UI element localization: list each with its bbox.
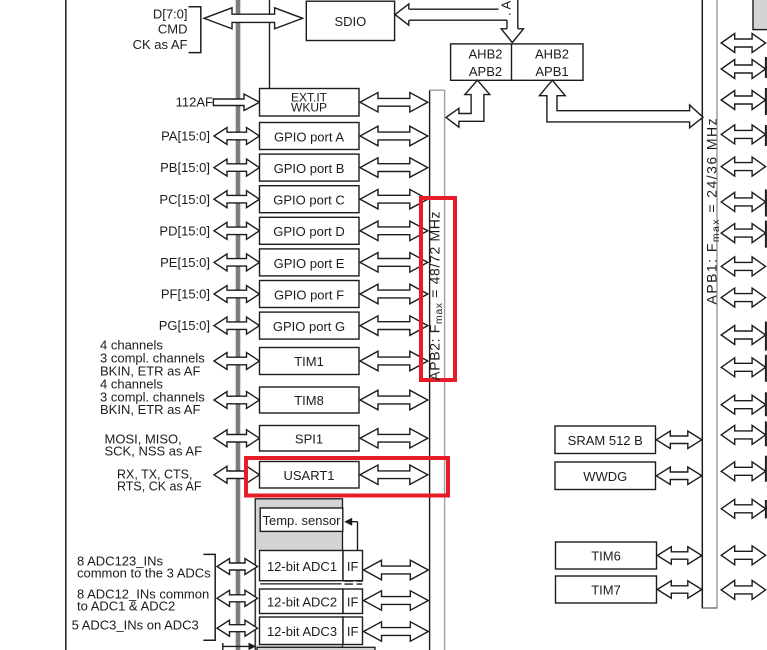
- label PD[15:0]: [159, 223, 210, 238]
- open arrowhead into SDIO: [395, 4, 409, 25]
- svg-text:GPIO port F: GPIO port F: [274, 287, 344, 302]
- system bus (thick gray vertical): [236, 0, 241, 650]
- partial gray box top-right: [753, 0, 767, 30]
- double arrow APB1 to right peripheral (y=266): [721, 257, 765, 276]
- label SPI1 pins: [105, 431, 203, 458]
- double arrow TIM1 to APB2: [360, 351, 428, 371]
- double arrow PG to GPIO port G: [214, 317, 260, 334]
- svg-text:AHB2: AHB2: [535, 47, 569, 62]
- cut right peripheral box edge (y=509): [765, 500, 767, 518]
- double arrow APB1 to right peripheral (y=298): [721, 288, 765, 307]
- cut right peripheral box edge (y=134): [765, 125, 767, 146]
- SDIO box: [306, 1, 394, 40]
- double arrow GPIO port E to APB2: [360, 253, 428, 273]
- double arrow label to TIM8: [214, 392, 260, 409]
- double arrow USART1 to APB2: [360, 465, 428, 485]
- svg-text:WWDG: WWDG: [583, 469, 627, 484]
- double arrow GPIO port B to APB2: [360, 158, 428, 178]
- SRAM 512 B box: [555, 426, 656, 454]
- double arrow GPIO port D to APB2: [360, 221, 428, 241]
- wire ADC IF to temp sensor: [351, 522, 358, 551]
- double arrow PE to GPIO port E: [214, 254, 260, 271]
- cut right peripheral box edge (y=69): [765, 57, 767, 78]
- WWDG box: [555, 462, 656, 490]
- double arrow GPIO port F to APB2: [360, 284, 428, 304]
- svg-text:APB2: APB2: [469, 64, 502, 79]
- GPIO port B box: [260, 154, 360, 181]
- double arrow APB1 to right peripheral (y=43): [721, 34, 765, 53]
- double arrow APB1 to right peripheral (y=134): [721, 125, 765, 144]
- 12-bit ADC1 box: [260, 551, 344, 581]
- label PA[15:0]: [161, 129, 210, 144]
- svg-text:CMD: CMD: [158, 22, 188, 37]
- bracket for ADC labels: [203, 554, 215, 640]
- double arrow TIM8 to APB2: [360, 390, 428, 410]
- svg-text:PA[15:0]: PA[15:0]: [161, 129, 210, 144]
- svg-text:PE[15:0]: PE[15:0]: [160, 255, 210, 270]
- cut right peripheral box edge (y=100): [765, 88, 767, 115]
- double arrow SRAM 512 B to APB1: [656, 431, 702, 449]
- GPIO port G box: [260, 312, 360, 339]
- Temp. sensor box: [260, 508, 343, 531]
- label 5 ADC3_INs: [72, 618, 199, 633]
- cut right peripheral box edge (y=233): [765, 221, 767, 248]
- svg-text:GPIO port B: GPIO port B: [274, 161, 345, 176]
- svg-text:112AF: 112AF: [176, 94, 213, 109]
- double arrow APB1 to right peripheral (y=233): [721, 224, 765, 243]
- svg-text:IF: IF: [347, 559, 359, 574]
- label PC[15:0]: [159, 192, 210, 207]
- AHB vertical arrow left side: [506, 20, 508, 29]
- bottom gray strip (DAC area, cut): [257, 647, 375, 650]
- svg-text:APB1: APB1: [535, 64, 568, 79]
- svg-text:IF: IF: [347, 594, 359, 609]
- hollow arrow SDIO to AHB (lower line): [409, 19, 507, 21]
- GPIO port F box: [260, 281, 360, 308]
- svg-text:common to the 3 ADCs: common to the 3 ADCs: [77, 565, 211, 580]
- double arrow D[7:0] to SDIO: [204, 8, 303, 29]
- double arrow PF to GPIO port F: [214, 286, 260, 303]
- vertical bus label fragment: [499, 0, 514, 16]
- label PE[15:0]: [160, 255, 210, 270]
- EXT.IT WKUP box: [260, 89, 360, 117]
- svg-text:USART1: USART1: [283, 468, 334, 483]
- ADC2 IF box: [343, 589, 363, 614]
- ADC3 IF box: [343, 617, 363, 645]
- double arrow APB1 to right peripheral (y=100): [721, 91, 765, 110]
- double arrow WWDG to APB1: [656, 467, 702, 485]
- double arrow APB1 to right peripheral (y=202): [721, 192, 765, 211]
- double arrow TIM6 to APB1: [657, 547, 702, 564]
- cut right peripheral box edge (y=202): [765, 189, 767, 216]
- svg-text:GPIO port E: GPIO port E: [274, 256, 345, 271]
- double arrow GPIO port A to APB2: [360, 126, 428, 146]
- svg-text:IF: IF: [347, 624, 359, 639]
- APB1 bus bar: [702, 0, 717, 609]
- double arrow APB1 to right peripheral (y=590): [721, 580, 765, 599]
- open arrowhead into AHB2/APB2 bridge: [501, 29, 523, 43]
- wire EXT.IT to top: [269, 0, 271, 89]
- svg-text:to ADC1 & ADC2: to ADC1 & ADC2: [77, 598, 175, 613]
- svg-text:TIM6: TIM6: [591, 549, 621, 564]
- double arrow APB1 to right peripheral (y=167): [721, 157, 765, 176]
- cut right peripheral box edge (y=435): [765, 421, 767, 446]
- double arrow ADC1 IF to APB2: [364, 560, 429, 580]
- USART1 box: [260, 462, 360, 489]
- label D[7:0]/CMD/CK as AF: [133, 7, 188, 52]
- label 4 channels (TIM8): [100, 376, 205, 417]
- svg-text:WKUP: WKUP: [291, 100, 327, 114]
- hollow arrow SDIO to AHB (upper line): [409, 8, 499, 10]
- double arrow APB1 to right peripheral (y=509): [721, 499, 765, 518]
- double arrow APB1 to right peripheral (y=405): [721, 395, 765, 414]
- bracket for D[7:0] label: [189, 7, 201, 53]
- double arrow APB1 to right peripheral (y=335): [721, 326, 765, 345]
- bottom arrow to DAC area (cut): [223, 643, 257, 650]
- double arrow label to USART1: [214, 466, 260, 483]
- TIM1 box: [260, 348, 360, 375]
- svg-text:GPIO port A: GPIO port A: [274, 129, 344, 144]
- red highlight APB2 label: [421, 198, 455, 380]
- cut right peripheral box edge (y=405): [765, 392, 767, 416]
- svg-text:CK as AF: CK as AF: [133, 37, 188, 52]
- svg-text:5 ADC3_INs on ADC3: 5 ADC3_INs on ADC3: [72, 618, 199, 633]
- cut right peripheral box edge (y=335): [765, 322, 767, 351]
- svg-text:BKIN, ETR as AF: BKIN, ETR as AF: [100, 402, 200, 417]
- double arrow APB1 to right peripheral (y=69): [721, 60, 765, 79]
- double arrow APB1 to right peripheral (y=367): [721, 358, 765, 377]
- svg-text:TIM7: TIM7: [591, 583, 621, 598]
- double arrow APB1 to right peripheral (y=555): [721, 546, 765, 565]
- double arrow SPI1 to APB2: [360, 429, 428, 449]
- arrow 112AF to EXT.IT: [213, 94, 259, 111]
- double seam line under ADC1: [260, 583, 341, 585]
- double arrow ADC2 IF to APB2: [364, 591, 429, 610]
- dashed link ADC1-IF to ADC2-IF: [345, 581, 363, 584]
- svg-text:SPI1: SPI1: [295, 431, 323, 446]
- svg-text:GPIO port D: GPIO port D: [273, 224, 345, 239]
- label 112AF: [176, 94, 213, 109]
- label USART1 pins: [117, 467, 202, 493]
- 12-bit ADC2 box: [260, 589, 344, 614]
- APB1 bus label: [704, 117, 723, 305]
- GPIO port D box: [260, 217, 360, 244]
- svg-text:PB[15:0]: PB[15:0]: [160, 160, 210, 175]
- label 8 ADC12_INs: [77, 586, 209, 613]
- svg-text:PC[15:0]: PC[15:0]: [159, 192, 210, 207]
- cut right peripheral box edge (y=471): [765, 456, 767, 482]
- label PB[15:0]: [160, 160, 210, 175]
- svg-text:APB2: Fmax = 48/72 MHz: APB2: Fmax = 48/72 MHz: [427, 211, 446, 381]
- cut right peripheral box edge (y=367): [765, 355, 767, 382]
- double arrow label to TIM1: [214, 353, 260, 370]
- svg-text:D[7:0]: D[7:0]: [153, 7, 188, 22]
- GPIO port E box: [260, 249, 360, 276]
- left frame line: [65, 0, 67, 650]
- svg-text:GPIO port G: GPIO port G: [273, 319, 345, 334]
- svg-text:12-bit ADC3: 12-bit ADC3: [267, 624, 337, 639]
- SPI1 box: [260, 426, 360, 452]
- AHB2/APB2-APB1 bridge box: [451, 44, 583, 80]
- ADC/temp-sensor gray group: [255, 499, 342, 650]
- solid arrowhead into temp sensor: [344, 518, 352, 526]
- TIM7 box: [556, 576, 657, 603]
- double arrow PC to GPIO port C: [214, 191, 260, 208]
- APB2 bus bar: [430, 90, 445, 650]
- svg-text:AHB2: AHB2: [469, 47, 503, 62]
- double arrow EXT.IT to APB2: [360, 93, 428, 113]
- bent arrow AHB2/APB1 bridge to APB1 bus: [539, 80, 703, 128]
- svg-text:PG[15:0]: PG[15:0]: [159, 318, 210, 333]
- double arrow APB1 to right peripheral (y=471): [721, 462, 765, 481]
- bent arrow APB2 bus to AHB2/APB2 bridge: [446, 80, 490, 127]
- svg-text:Temp. sensor: Temp. sensor: [262, 513, 341, 528]
- svg-text:APB1: Fmax = 24/36 MHz: APB1: Fmax = 24/36 MHz: [704, 117, 723, 305]
- svg-text:. A: . A: [499, 0, 514, 16]
- double arrow label to SPI1: [214, 430, 260, 447]
- double arrow ADC3 inputs: [217, 620, 258, 636]
- double arrow GPIO port G to APB2: [360, 316, 428, 336]
- white backing behind ADC stack: [257, 550, 363, 646]
- double arrow ADC1 inputs: [217, 559, 258, 575]
- label PG[15:0]: [159, 318, 210, 333]
- label PF[15:0]: [161, 287, 210, 302]
- label 4 channels (TIM1): [100, 338, 205, 379]
- svg-text:TIM8: TIM8: [294, 393, 324, 408]
- svg-text:SRAM 512 B: SRAM 512 B: [568, 433, 643, 448]
- svg-text:12-bit ADC2: 12-bit ADC2: [267, 594, 337, 609]
- double arrow APB1 to right peripheral (y=435): [721, 425, 765, 444]
- GPIO port C box: [260, 186, 360, 213]
- ADC1 IF box: [343, 551, 363, 581]
- double arrow TIM7 to APB1: [657, 581, 702, 598]
- svg-text:TIM1: TIM1: [294, 354, 324, 369]
- double arrow ADC3 IF to APB2: [364, 622, 429, 641]
- APB2 bus label: [427, 211, 446, 381]
- double arrow GPIO port C to APB2: [360, 189, 428, 209]
- AHB vertical arrow right side: [517, 0, 519, 29]
- TIM8 box: [260, 387, 360, 413]
- double arrow PD to GPIO port D: [214, 222, 260, 239]
- double arrow PB to GPIO port B: [214, 159, 260, 176]
- svg-text:PF[15:0]: PF[15:0]: [161, 287, 210, 302]
- double arrow PA to GPIO port A: [214, 128, 260, 145]
- 12-bit ADC3 box: [260, 617, 344, 645]
- double arrow ADC2 inputs: [217, 590, 258, 606]
- svg-text:GPIO port C: GPIO port C: [273, 193, 345, 208]
- svg-text:SCK, NSS as AF: SCK, NSS as AF: [105, 444, 203, 459]
- svg-text:RTS, CK as AF: RTS, CK as AF: [117, 480, 202, 494]
- GPIO port A box: [260, 123, 360, 150]
- TIM6 box: [556, 542, 657, 569]
- label 8 ADC123_INs: [77, 553, 211, 580]
- svg-text:12-bit ADC1: 12-bit ADC1: [267, 559, 337, 574]
- red highlight USART1: [246, 458, 448, 496]
- svg-text:SDIO: SDIO: [335, 14, 367, 29]
- svg-text:PD[15:0]: PD[15:0]: [159, 223, 210, 238]
